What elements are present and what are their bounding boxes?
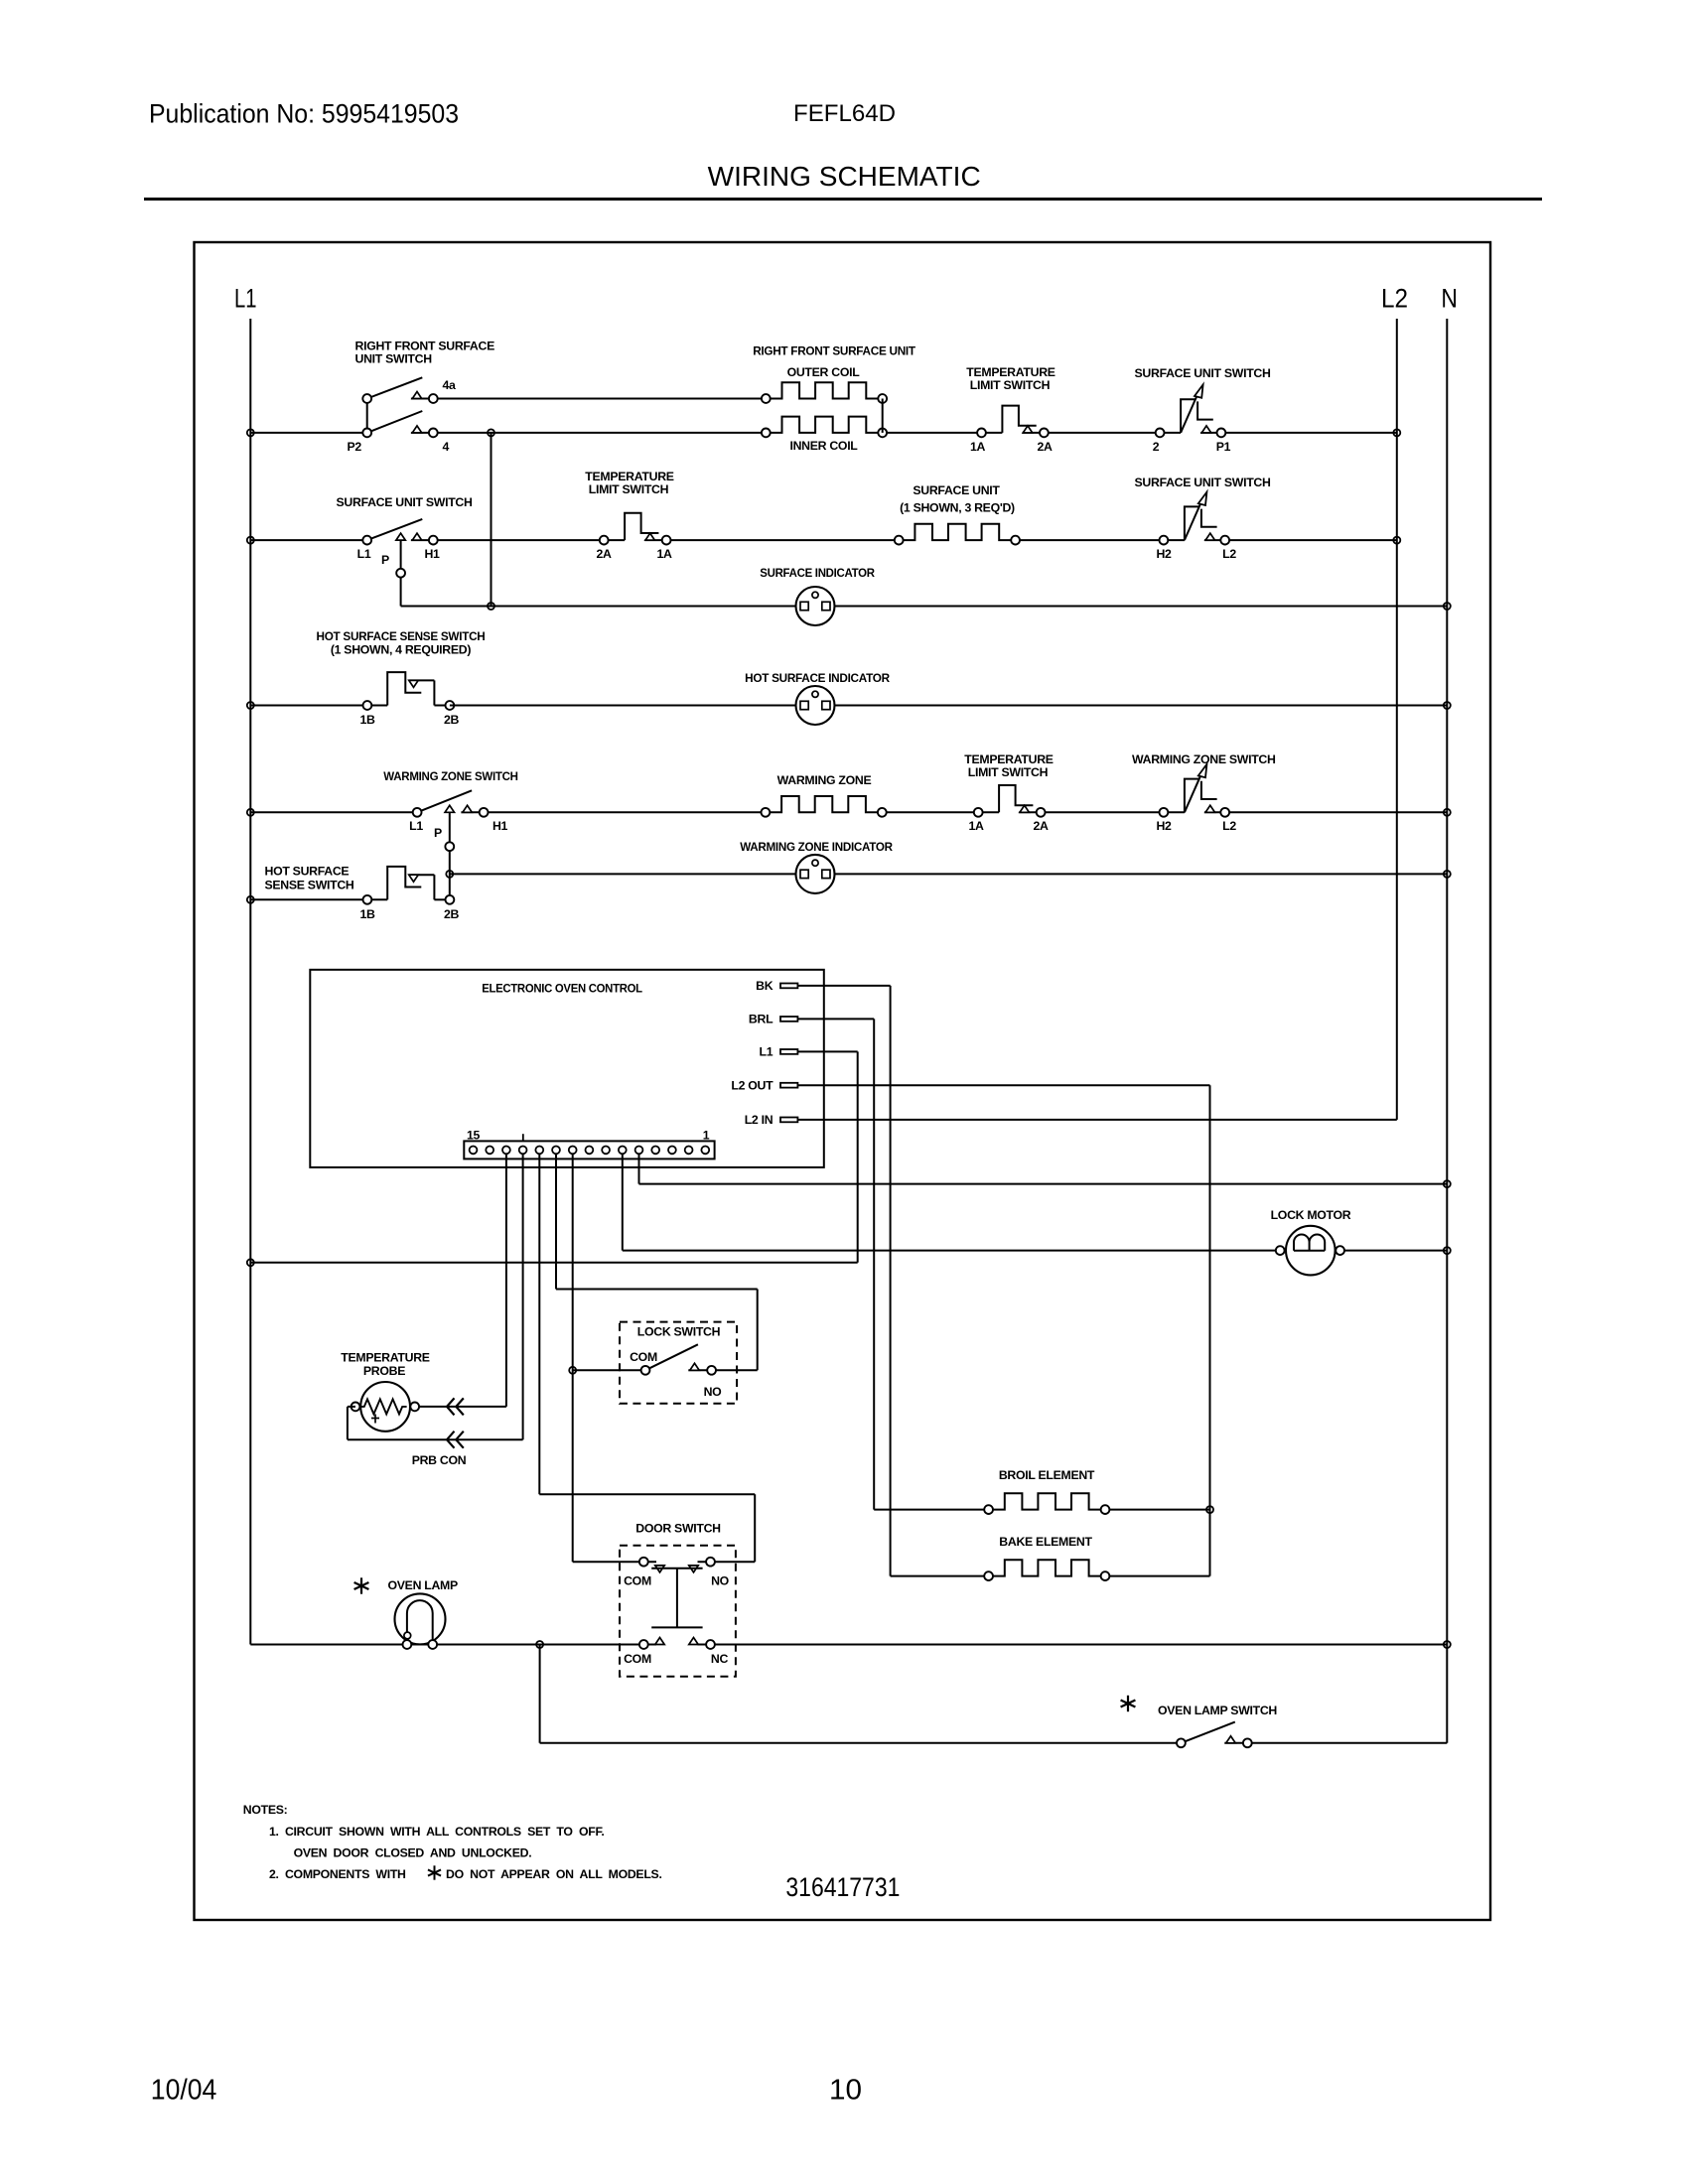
switch WARMING ZONE SWITCH (row5 right): [1164, 811, 1185, 813]
box DOOR SWITCH (dashed): [620, 1546, 736, 1677]
svg-text:2: 2: [1153, 440, 1160, 454]
svg-text:WARMING ZONE INDICATOR: WARMING ZONE INDICATOR: [740, 840, 893, 854]
svg-text:BRL: BRL: [749, 1013, 774, 1026]
wire broil element to L2 OUT riser: [1109, 1509, 1209, 1511]
connector chevrons PRB lower: [447, 1432, 455, 1448]
asterisk for oven lamp switch: [1127, 1696, 1129, 1711]
svg-text:NO: NO: [704, 1385, 723, 1399]
wire row5b warming indicator branch to N bus: [450, 873, 1448, 875]
svg-text:N: N: [1441, 284, 1458, 314]
junction oven lamp row at N bus: [1444, 1641, 1451, 1648]
switch WARMING ZONE SWITCH (row5 left): [417, 790, 472, 812]
svg-text:H2: H2: [1156, 547, 1172, 561]
wire L2 IN terminal to L2 bus: [797, 1119, 1396, 1121]
wire vertical 494 from row1 to row3: [491, 433, 492, 607]
wire inner coil to temperature limit switch: [887, 432, 981, 434]
svg-text:(1 SHOWN, 3 REQ'D): (1 SHOWN, 3 REQ'D): [900, 501, 1015, 515]
wire BRL riser to broil element: [874, 1509, 988, 1511]
switch TEMPERATURE LIMIT SWITCH (row5): [978, 811, 999, 813]
svg-text:RIGHT FRONT SURFACE UNIT: RIGHT FRONT SURFACE UNIT: [753, 344, 915, 358]
wire row0 4a to outer coil: [438, 398, 767, 400]
wire 1A to surface unit heater: [671, 539, 900, 541]
svg-text:SURFACE UNIT SWITCH: SURFACE UNIT SWITCH: [337, 495, 473, 509]
svg-text:2. COMPONENTS WITH: 2. COMPONENTS WITH: [269, 1867, 406, 1881]
svg-text:WARMING ZONE: WARMING ZONE: [777, 773, 872, 787]
svg-text:1B: 1B: [359, 907, 375, 921]
junction row2 at L2 bus: [1393, 537, 1400, 544]
svg-text:P: P: [381, 553, 389, 567]
svg-text:P1: P1: [1216, 440, 1231, 454]
lamp OVEN LAMP (incandescent): [395, 1593, 446, 1644]
wire row2 L1 to switch: [250, 539, 366, 541]
door switch plunger: [651, 1568, 702, 1570]
wire lock motor to N bus: [1344, 1250, 1447, 1252]
svg-text:SURFACE INDICATOR: SURFACE INDICATOR: [760, 566, 875, 580]
wire pilot branch: triangle down to P circle to row3: [400, 540, 402, 606]
svg-text:10/04: 10/04: [151, 2075, 217, 2107]
wire L1 terminal riser to L1 feed row: [797, 1050, 857, 1052]
wire link outer/inner coil right ends: [882, 399, 884, 433]
junction row4 at N bus: [1444, 702, 1451, 709]
svg-text:OVEN LAMP: OVEN LAMP: [388, 1578, 459, 1592]
schematic border frame: [195, 242, 1491, 1920]
heater INNER COIL: [766, 417, 882, 433]
svg-text:OVEN DOOR CLOSED AND UNLOCKED.: OVEN DOOR CLOSED AND UNLOCKED.: [294, 1846, 532, 1860]
svg-text:1. CIRCUIT SHOWN WITH ALL CO: 1. CIRCUIT SHOWN WITH ALL CONTROLS SET T…: [269, 1825, 604, 1839]
svg-text:L1: L1: [409, 819, 423, 833]
wire L1 bus to EOC L1 riser: [250, 1262, 857, 1264]
svg-text:1A: 1A: [970, 440, 986, 454]
wire pin10 to lock switch NO: [555, 1150, 557, 1289]
svg-text:H1: H1: [424, 547, 440, 561]
svg-text:2B: 2B: [444, 907, 460, 921]
wire pin13 to probe upper: [505, 1150, 507, 1407]
svg-text:WARMING ZONE SWITCH: WARMING ZONE SWITCH: [1132, 752, 1276, 766]
junction pin5 row at N bus: [1444, 1180, 1451, 1187]
wire row6 L1 to 1B: [250, 898, 367, 900]
heater WARMING ZONE: [766, 796, 882, 812]
junction row5 at L1 bus: [247, 809, 254, 816]
svg-text:HOT SURFACE: HOT SURFACE: [265, 865, 350, 879]
svg-text:TEMPERATURE: TEMPERATURE: [341, 1351, 429, 1365]
connector chevrons PRB upper: [447, 1398, 455, 1415]
wire BK riser to bake element: [891, 1575, 989, 1577]
svg-text:RIGHT FRONT SURFACE: RIGHT FRONT SURFACE: [355, 340, 495, 353]
wire 2B to hot surface indicator to N bus: [450, 705, 1447, 707]
switch SURFACE UNIT SWITCH (row2 left): [367, 519, 423, 540]
svg-text:INNER COIL: INNER COIL: [789, 439, 858, 453]
wire pin9 to lock switch COM and door switch COM: [572, 1150, 574, 1562]
wire row5 L1 to switch: [250, 811, 417, 813]
wire pin5 to N bus row: [638, 1150, 640, 1183]
svg-text:COM: COM: [624, 1574, 651, 1588]
junction warming indicator branch: [446, 871, 453, 878]
switch DOOR SWITCH lower (COM-NC): [655, 1638, 664, 1645]
svg-text:2A: 2A: [596, 547, 612, 561]
switch SURFACE UNIT SWITCH (row2 right): [1164, 539, 1185, 541]
svg-text:PROBE: PROBE: [363, 1364, 405, 1378]
wire lock motor row from pin6 to lock motor: [623, 1250, 1286, 1252]
svg-text:L2: L2: [1222, 547, 1236, 561]
bus L1 vertical: [249, 319, 251, 1645]
heater BROIL ELEMENT: [989, 1493, 1105, 1509]
wire heater to temperature limit switch (row5): [887, 811, 979, 813]
svg-text:4: 4: [443, 440, 450, 454]
wire pin6 to lock motor row: [622, 1150, 624, 1250]
svg-text:SURFACE UNIT: SURFACE UNIT: [913, 483, 1000, 497]
junction L1 feed at L1 bus: [247, 1259, 254, 1266]
wire row1 L1 to switch P2: [250, 432, 366, 434]
wire pin11 to door switch NO: [538, 1150, 540, 1494]
svg-text:SENSE SWITCH: SENSE SWITCH: [265, 879, 354, 892]
svg-text:PRB CON: PRB CON: [412, 1453, 467, 1467]
svg-text:LIMIT SWITCH: LIMIT SWITCH: [970, 378, 1051, 392]
lamp SURFACE INDICATOR: [796, 587, 835, 625]
junction pin9 branch to lock switch: [573, 1369, 641, 1371]
wire H1 to warming zone heater: [489, 811, 766, 813]
svg-text:H2: H2: [1156, 819, 1172, 833]
svg-text:LIMIT SWITCH: LIMIT SWITCH: [589, 482, 669, 496]
svg-text:1B: 1B: [359, 713, 375, 727]
svg-text:NC: NC: [711, 1652, 729, 1666]
wire lamp switch to N bus riser: [1252, 1742, 1448, 1744]
svg-text:1: 1: [703, 1129, 710, 1143]
svg-text:2A: 2A: [1033, 819, 1049, 833]
svg-text:UNIT SWITCH: UNIT SWITCH: [355, 352, 433, 366]
wire row1 terminal 4 to inner coil (through junction): [438, 432, 767, 434]
junction row1 / vertical-494: [488, 429, 494, 436]
wire probe left terminal loop to pin12 riser: [348, 1406, 355, 1408]
junction lock motor row at N bus: [1444, 1247, 1451, 1254]
switch HOT SURFACE SENSE SWITCH (row4): [367, 705, 387, 707]
heater SURFACE UNIT: [899, 524, 1015, 540]
svg-text:TEMPERATURE: TEMPERATURE: [585, 470, 673, 483]
title underline rule: [144, 198, 1542, 201]
junction row4 at L1 bus: [247, 702, 254, 709]
svg-text:BAKE ELEMENT: BAKE ELEMENT: [999, 1535, 1092, 1549]
junction row2 at L1 bus: [247, 537, 254, 544]
pin index tick: [522, 1134, 524, 1141]
wire pilot branch row5: triangle down through P to 2B: [449, 812, 451, 899]
switch OVEN LAMP SWITCH: [1181, 1722, 1234, 1743]
resistor TEMPERATURE PROBE: [360, 1382, 410, 1432]
svg-text:2B: 2B: [444, 713, 460, 727]
svg-text:ELECTRONIC OVEN CONTROL: ELECTRONIC OVEN CONTROL: [482, 982, 642, 996]
motor LOCK MOTOR: [1286, 1226, 1336, 1276]
svg-text:TEMPERATURE: TEMPERATURE: [964, 752, 1053, 766]
wire heater to surface unit switch H2: [1020, 539, 1164, 541]
wire 2A to surface unit switch 2: [1049, 432, 1160, 434]
svg-text:1A: 1A: [656, 547, 672, 561]
junction row6 at L1 bus: [247, 896, 254, 903]
svg-text:L2 OUT: L2 OUT: [731, 1078, 774, 1092]
svg-text:BROIL ELEMENT: BROIL ELEMENT: [999, 1468, 1095, 1482]
switch TEMPERATURE LIMIT SWITCH (row2): [604, 539, 625, 541]
wire P1 to L2 bus: [1225, 432, 1397, 434]
wire row3 from pilot branch to N bus: [401, 606, 1448, 608]
svg-text:SURFACE UNIT SWITCH: SURFACE UNIT SWITCH: [1135, 476, 1271, 489]
svg-text:WARMING ZONE SWITCH: WARMING ZONE SWITCH: [383, 769, 518, 783]
wire bake element to L2 OUT riser: [1109, 1575, 1209, 1577]
pins of connector strip: [701, 1147, 709, 1155]
connector strip of EOC: [464, 1141, 714, 1159]
wire row4 L1 to 1B: [250, 705, 367, 707]
asterisk for oven lamp: [360, 1577, 362, 1593]
svg-text:COM: COM: [624, 1652, 651, 1666]
junction row3 at N bus: [1444, 603, 1451, 610]
svg-text:15: 15: [467, 1129, 481, 1143]
junction oven lamp row to lamp switch riser: [536, 1641, 543, 1648]
junction row1 at L1 bus: [247, 429, 254, 436]
wire lamp switch riser down and across: [539, 1645, 541, 1743]
wire 2A to warming zone switch H2: [1046, 811, 1164, 813]
svg-text:P2: P2: [348, 440, 362, 454]
svg-text:1A: 1A: [968, 819, 984, 833]
junction row5b at N bus: [1444, 871, 1451, 878]
svg-text:L2: L2: [1222, 819, 1236, 833]
svg-text:FEFL64D: FEFL64D: [793, 100, 896, 127]
svg-text:L1: L1: [234, 284, 257, 314]
svg-text:DO NOT APPEAR ON ALL MODELS.: DO NOT APPEAR ON ALL MODELS.: [446, 1867, 662, 1881]
svg-text:2A: 2A: [1037, 440, 1053, 454]
switch LOCK SWITCH: [645, 1344, 698, 1370]
heater OUTER COIL: [766, 382, 882, 398]
switch HOT SURFACE SENSE SWITCH (row6): [367, 898, 387, 900]
svg-text:Publication No: 5995419503: Publication No: 5995419503: [149, 99, 459, 129]
heater BAKE ELEMENT: [989, 1560, 1105, 1575]
svg-text:LOCK SWITCH: LOCK SWITCH: [637, 1325, 721, 1339]
svg-text:WIRING SCHEMATIC: WIRING SCHEMATIC: [708, 161, 981, 192]
svg-text:TEMPERATURE: TEMPERATURE: [966, 365, 1055, 379]
wire oven lamp row from L1 bus corner to door switch and N bus: [250, 1644, 639, 1646]
wire L2 throw to L2 bus: [1229, 539, 1397, 541]
box LOCK SWITCH (dashed): [620, 1322, 737, 1404]
svg-text:H1: H1: [492, 819, 508, 833]
svg-text:P: P: [434, 826, 442, 840]
wire BRL terminal to broil element riser: [797, 1018, 874, 1020]
svg-text:LIMIT SWITCH: LIMIT SWITCH: [968, 765, 1049, 779]
svg-text:L1: L1: [357, 547, 371, 561]
svg-text:COM: COM: [630, 1350, 657, 1364]
junction row5 at N bus: [1444, 809, 1451, 816]
svg-text:OUTER COIL: OUTER COIL: [787, 365, 861, 379]
svg-text:10: 10: [829, 2075, 862, 2107]
wire H1 to temperature limit switch (row2): [438, 539, 605, 541]
bus N vertical: [1446, 319, 1448, 1743]
svg-text:L2 IN: L2 IN: [745, 1113, 774, 1127]
svg-text:OVEN LAMP SWITCH: OVEN LAMP SWITCH: [1158, 1704, 1277, 1717]
svg-text:NOTES:: NOTES:: [243, 1803, 288, 1817]
wire BK terminal to bake element riser: [797, 985, 890, 987]
svg-text:DOOR SWITCH: DOOR SWITCH: [635, 1522, 721, 1536]
asterisk in note 2: [434, 1865, 436, 1879]
svg-text:316417731: 316417731: [785, 1872, 900, 1902]
svg-text:L1: L1: [760, 1045, 774, 1059]
svg-text:4a: 4a: [443, 378, 457, 392]
svg-text:HOT SURFACE INDICATOR: HOT SURFACE INDICATOR: [745, 671, 890, 685]
svg-text:LOCK MOTOR: LOCK MOTOR: [1271, 1208, 1351, 1222]
switch RIGHT FRONT SURFACE UNIT SWITCH (double pole): [366, 399, 368, 433]
svg-text:L2: L2: [1381, 284, 1408, 314]
bus L2 vertical: [1396, 319, 1398, 1120]
lamp HOT SURFACE INDICATOR: [796, 686, 835, 725]
lamp WARMING ZONE INDICATOR: [796, 855, 835, 893]
svg-text:BK: BK: [756, 979, 774, 993]
switch TEMPERATURE LIMIT SWITCH (row1): [982, 432, 1003, 434]
svg-text:(1 SHOWN, 4 REQUIRED): (1 SHOWN, 4 REQUIRED): [331, 643, 471, 657]
wire pin12 to probe lower: [522, 1150, 524, 1439]
junction row3 / vertical-494: [488, 603, 494, 610]
svg-text:HOT SURFACE SENSE SWITCH: HOT SURFACE SENSE SWITCH: [317, 629, 486, 643]
wire L2 throw to N bus (row5): [1229, 811, 1447, 813]
wire probe right terminal to pin13 riser with connector chevrons: [419, 1406, 506, 1408]
wire L2 OUT terminal riser to broil row: [797, 1084, 1209, 1086]
junction broil row at L2 OUT riser: [1206, 1506, 1213, 1513]
switch SURFACE UNIT SWITCH (row1 right, infinite switch): [1160, 432, 1181, 434]
switch DOOR SWITCH upper (COM-NO): [639, 1561, 656, 1563]
svg-text:SURFACE UNIT SWITCH: SURFACE UNIT SWITCH: [1135, 366, 1271, 380]
junction row1 at L2 bus: [1393, 429, 1400, 436]
svg-text:NO: NO: [711, 1574, 730, 1588]
box ELECTRONIC OVEN CONTROL: [310, 970, 824, 1167]
